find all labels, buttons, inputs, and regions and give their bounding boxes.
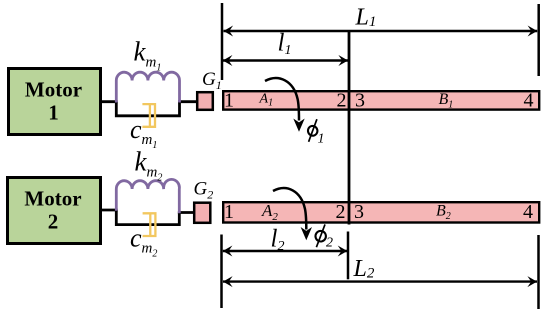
node 2-3 divider vertical line (upper) [348, 31, 351, 225]
wire motor2 to coupling 2 [100, 209, 118, 212]
wire coupling1 to gear G1 [178, 100, 197, 103]
damper c_m2 [143, 213, 156, 236]
shaft 1 body [223, 90, 539, 112]
svg-text:3: 3 [355, 90, 365, 112]
svg-text:4: 4 [523, 201, 533, 223]
wire coupling2 to gear G2 [178, 211, 195, 214]
twist arrow phi1 [265, 78, 299, 120]
svg-text:2: 2 [337, 90, 347, 112]
wire coupling2 lower branch [116, 210, 179, 225]
label phi2 [315, 224, 327, 247]
svg-text:3: 3 [354, 201, 364, 223]
motor M2 box [8, 178, 101, 244]
svg-text:2: 2 [48, 210, 59, 234]
svg-text:2: 2 [336, 201, 346, 223]
node 2-3 divider vertical line (lower) [347, 232, 350, 280]
spring k_m2 [116, 179, 179, 213]
dimension l2 [223, 250, 347, 252]
svg-text:1: 1 [48, 101, 59, 125]
svg-text:Motor: Motor [25, 78, 82, 102]
spring k_m1 [116, 72, 179, 102]
svg-text:4: 4 [524, 90, 534, 112]
dimension l1 [223, 59, 348, 61]
svg-text:1: 1 [224, 90, 234, 112]
extension line left top [221, 3, 224, 80]
wire coupling1 lower branch [116, 102, 179, 116]
extension line right top [537, 4, 540, 76]
svg-text:Motor: Motor [24, 187, 81, 211]
dimension L2 [223, 280, 537, 282]
label phi1 [307, 119, 318, 142]
svg-text:1: 1 [224, 201, 234, 223]
dimension L1 [224, 30, 538, 32]
gear G1 [197, 69, 222, 110]
twist arrow phi2 [273, 188, 306, 229]
gear G2 [194, 179, 214, 223]
shaft 2 body [223, 201, 539, 223]
motor M1 box [9, 69, 101, 135]
wire motor1 to coupling 1 [100, 100, 118, 103]
svg-text:1: 1 [318, 132, 325, 147]
svg-text:2: 2 [326, 236, 333, 251]
damper c_m1 [142, 104, 155, 127]
extension line right bottom [537, 235, 540, 309]
extension line left bottom [220, 235, 223, 309]
